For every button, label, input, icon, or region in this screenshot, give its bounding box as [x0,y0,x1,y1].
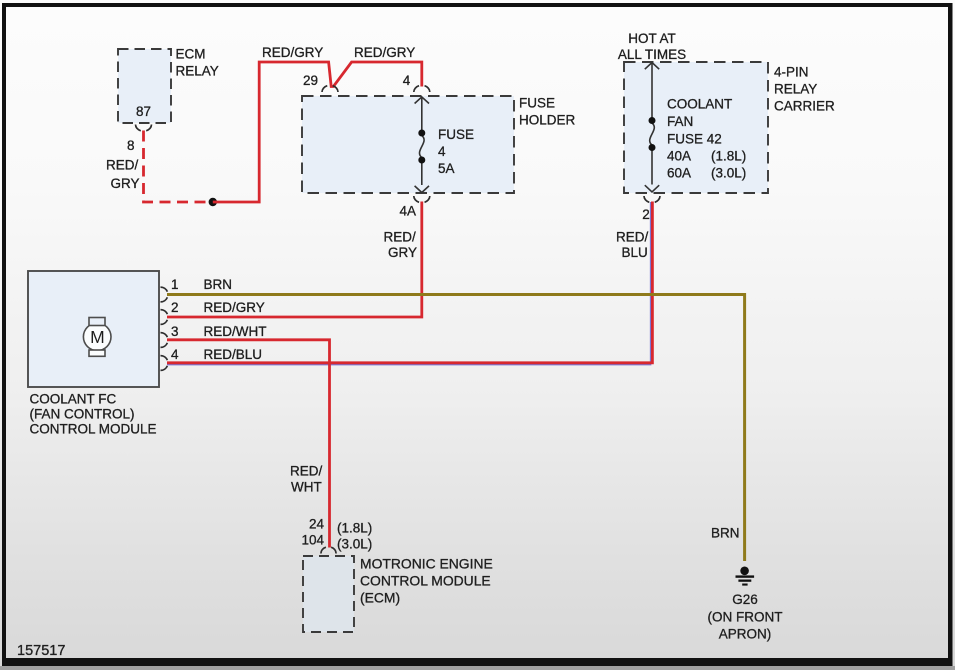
svg-text:HOT AT: HOT AT [628,31,676,46]
svg-text:2: 2 [642,207,650,222]
wire dashed RED/GRY from pin 8 to junction [144,131,211,203]
module box (COOLANT FC CONTROL MODULE) [28,271,159,387]
wire RED/WHT from module pin 3 to ECM [167,340,330,548]
svg-text:GRY: GRY [111,176,140,191]
svg-text:CARRIER: CARRIER [774,99,835,114]
svg-text:40A: 40A [667,149,691,164]
svg-text:CONTROL MODULE: CONTROL MODULE [30,422,157,437]
svg-text:FAN: FAN [667,114,693,129]
pin 3 connector arc [161,333,168,348]
pin 8 connector arc [136,125,152,131]
svg-text:M: M [90,327,105,347]
svg-text:APRON): APRON) [719,627,772,642]
svg-text:CONTROL MODULE: CONTROL MODULE [360,573,491,589]
svg-text:RELAY: RELAY [774,82,817,97]
fuse holder box [302,96,514,193]
pin 4A connector arc [414,196,430,202]
svg-text:(FAN CONTROL): (FAN CONTROL) [30,407,135,422]
pin 4 connector arc [161,356,168,371]
relay carrier box (4-PIN RELAY CARRIER) [624,62,768,193]
svg-text:RED/: RED/ [290,464,323,479]
svg-text:104: 104 [302,533,325,548]
svg-text:(3.0L): (3.0L) [337,537,372,552]
svg-text:BLU: BLU [622,245,648,260]
wire RED/BLU blue stripe [167,202,651,365]
ECM pin connector arc [321,547,336,553]
fuse F4 symbol [415,97,429,193]
svg-text:RED/GRY: RED/GRY [354,45,415,60]
svg-text:COOLANT FC: COOLANT FC [30,392,117,407]
svg-text:4-PIN: 4-PIN [774,65,809,80]
svg-text:RELAY: RELAY [176,64,219,79]
svg-text:FUSE: FUSE [519,96,555,111]
svg-text:FUSE 42: FUSE 42 [667,132,722,147]
svg-text:ECM: ECM [176,47,206,62]
relay K1 (ECM RELAY) box [118,49,171,123]
svg-text:BRN: BRN [711,526,740,541]
svg-text:ALL TIMES: ALL TIMES [618,47,686,62]
svg-text:HOLDER: HOLDER [519,113,576,128]
svg-text:RED/: RED/ [616,230,649,245]
svg-text:RED/GRY: RED/GRY [262,45,323,60]
svg-text:BRN: BRN [204,277,233,292]
pin 4 connector arc [414,86,430,92]
pin 29 connector arc [322,86,338,92]
ground G26 symbol [736,567,755,586]
svg-text:RED/GRY: RED/GRY [204,300,265,315]
wire RED/GRY from pin 4A to module pin 2 [167,202,422,318]
svg-text:(1.8L): (1.8L) [337,521,372,536]
svg-text:COOLANT: COOLANT [667,97,732,112]
svg-text:24: 24 [309,517,325,532]
fuse 42 symbol [645,63,659,192]
svg-text:87: 87 [136,104,151,119]
pin 1 connector arc [161,287,168,302]
wire RED/BLU from relay pin 2 to module pin 4 [167,202,652,363]
svg-text:RED/BLU: RED/BLU [204,347,263,362]
svg-text:WHT: WHT [291,480,322,495]
svg-text:MOTRONIC ENGINE: MOTRONIC ENGINE [360,556,493,572]
motor M1 symbol [83,318,111,357]
svg-text:4: 4 [403,73,411,88]
pin 2 connector arc [644,196,660,202]
svg-text:8: 8 [127,138,135,153]
svg-text:5A: 5A [438,161,455,176]
wire BRN from module pin 1 to ground G26 [167,295,745,562]
svg-text:157517: 157517 [17,643,65,659]
svg-text:3: 3 [171,324,179,339]
junction node [209,198,217,206]
pin 2 connector arc [161,310,168,325]
svg-text:RED/WHT: RED/WHT [204,324,267,339]
svg-text:GRY: GRY [388,245,417,260]
svg-text:G26: G26 [732,592,758,607]
wire solid RED/GRY junction to fuse holder pins 29 and 4 [213,62,422,202]
svg-text:RED/: RED/ [106,158,139,173]
svg-text:4A: 4A [400,204,417,219]
svg-text:(ECM): (ECM) [360,590,400,606]
svg-text:4: 4 [171,347,179,362]
svg-text:FUSE: FUSE [438,127,474,142]
svg-text:2: 2 [171,300,179,315]
svg-text:RED/: RED/ [384,230,417,245]
svg-text:1: 1 [171,277,179,292]
svg-text:(1.8L): (1.8L) [711,149,746,164]
svg-text:60A: 60A [667,166,691,181]
svg-text:29: 29 [303,73,318,88]
svg-text:(3.0L): (3.0L) [711,166,746,181]
svg-text:(ON FRONT: (ON FRONT [708,610,783,625]
ECM box (MOTRONIC ENGINE CONTROL MODULE) [303,556,354,632]
fuse 42 value label [667,97,746,181]
svg-text:4: 4 [438,144,446,159]
